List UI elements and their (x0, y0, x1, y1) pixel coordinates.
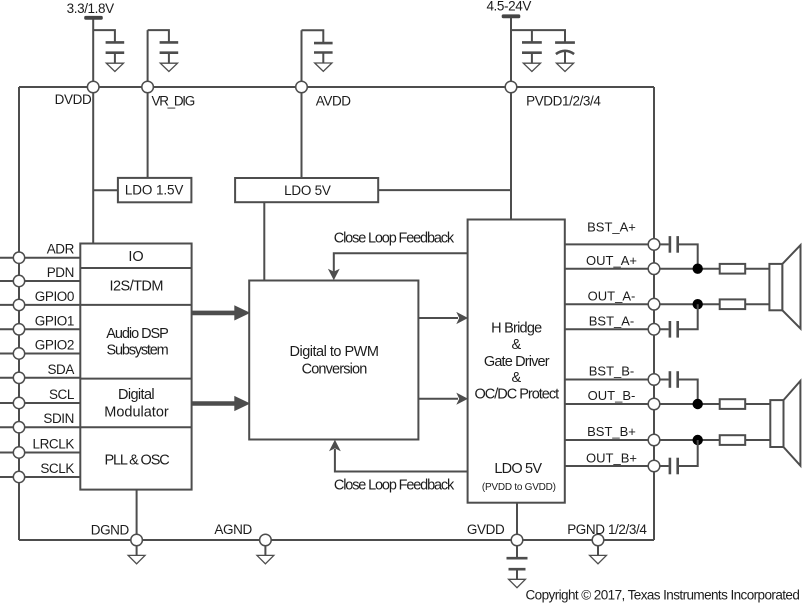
pin wire SDIN (0, 426, 80, 428)
capacitor GVDD decoupling (507, 546, 528, 579)
pin wire PDN (0, 280, 80, 282)
capacitor DVDD decoupling (106, 42, 125, 63)
svg-text:OUT_A-: OUT_A- (588, 289, 636, 304)
svg-text:ADR: ADR (47, 242, 75, 257)
svg-text:Digital: Digital (118, 387, 154, 403)
svg-text:H Bridge: H Bridge (491, 321, 542, 337)
wire OUT_B- output (565, 403, 720, 405)
arrowhead feedback bottom into PWM (329, 440, 341, 451)
ground symbol below AVDD cap (315, 63, 332, 71)
pin wire GPIO2 (0, 353, 80, 355)
capacitor PVDD ceramic (522, 42, 542, 63)
svg-text:OC/DC Protect: OC/DC Protect (474, 386, 559, 402)
svg-text:PVDD1/2/3/4: PVDD1/2/3/4 (526, 94, 601, 109)
svg-text:LDO 5V: LDO 5V (284, 183, 331, 198)
resistor BST_B+ branch (720, 435, 746, 445)
wire BST_B- cap to OUT_B- junction (679, 380, 698, 405)
wire stub DVDD to decoupling cap (93, 30, 115, 42)
wire OUT_A- resistor to speaker (745, 303, 769, 305)
svg-text:PGND 1/2/3/4: PGND 1/2/3/4 (567, 522, 647, 537)
power rail bar 4.5-24V (502, 14, 521, 18)
svg-text:OUT_B+: OUT_B+ (586, 450, 637, 465)
wire close loop feedback top (334, 253, 468, 271)
regulator U-LDO2 LDO 5V (235, 178, 378, 202)
svg-text:Digital to PWM: Digital to PWM (290, 344, 379, 360)
wire BST_B+ output (565, 439, 720, 441)
wire OUT_A+ output (565, 268, 720, 270)
wire LDO 5V output down to PWM block (263, 202, 265, 280)
divider IO / I2S (80, 267, 191, 269)
svg-text:AGND: AGND (214, 522, 252, 537)
capacitor bootstrap BST_A- (670, 321, 678, 338)
ground symbol AGND (257, 546, 274, 564)
node OUT_A+ on rail (648, 263, 660, 275)
node DVDD (87, 81, 99, 93)
wire LDO 5V output to PVDD column (378, 189, 511, 191)
capacitor AVDD decoupling (314, 43, 333, 63)
svg-text:PDN: PDN (47, 265, 74, 280)
node OUT_B+ on rail (648, 460, 660, 472)
wire VR_DIG vertical to LDO 1.5V (147, 30, 149, 178)
wire GVDD from H bridge block (516, 503, 518, 540)
svg-text:Copyright © 2017, Texas Instru: Copyright © 2017, Texas Instruments Inco… (526, 588, 800, 603)
svg-text:SCL: SCL (49, 387, 75, 402)
arrow PWM to H bridge upper (418, 312, 468, 324)
regulator U-LDO1 LDO 1.5V (118, 178, 191, 202)
node BST_A+ on rail (648, 239, 660, 251)
svg-text:SCLK: SCLK (40, 461, 74, 476)
svg-text:OUT_A+: OUT_A+ (586, 253, 637, 268)
wire stub PVDD to decoupling caps (511, 30, 565, 42)
wire outer rail right edge (653, 87, 655, 540)
wire AVDD vertical to LDO 5V (301, 30, 303, 178)
arrowhead feedback top into PWM (328, 269, 340, 281)
node SDA (13, 372, 24, 383)
capacitor PVDD bulk polarized (555, 43, 575, 63)
svg-text:BST_B-: BST_B- (589, 364, 635, 379)
node GPIO0 (13, 299, 24, 310)
wire outer rail left edge (18, 87, 20, 540)
thick bus arrow DSP to PWM upper (192, 305, 250, 320)
ground symbol DGND (128, 546, 145, 564)
node SCLK (13, 471, 24, 482)
pin wire SCL (0, 402, 80, 404)
node GVDD (511, 534, 523, 546)
pin wire SCLK (0, 476, 80, 478)
node LRCLK (13, 447, 24, 458)
wire DGND from DSP block (136, 490, 138, 540)
node AVDD (296, 81, 308, 93)
ground symbol below DVDD cap (106, 63, 123, 71)
svg-text:BST_B+: BST_B+ (587, 424, 636, 439)
svg-text:&: & (511, 370, 521, 386)
svg-text:&: & (511, 337, 521, 353)
svg-text:4.5-24V: 4.5-24V (486, 0, 531, 14)
svg-text:I2S/TDM: I2S/TDM (110, 279, 163, 295)
node ADR (13, 252, 24, 263)
wire BST_B+ resistor to speaker (745, 439, 770, 441)
wire OUT_A+ resistor to speaker (745, 268, 769, 270)
svg-text:LDO 1.5V: LDO 1.5V (125, 183, 184, 198)
block U3 H Bridge Gate Driver OC/DC Protect and LDO 5V (468, 220, 565, 503)
pin wire LRCLK (0, 452, 80, 454)
svg-text:LRCLK: LRCLK (32, 437, 74, 452)
ground symbol below VR_DIG cap (160, 63, 177, 71)
svg-text:SDIN: SDIN (43, 411, 74, 426)
svg-text:AVDD: AVDD (316, 93, 352, 108)
node BST_A- on rail (648, 324, 660, 336)
wire OUT_B+ cap to BST_B+ junction (679, 440, 698, 466)
wire BST_A+ cap to OUT_A+ junction (679, 244, 698, 268)
node PVDD (505, 81, 517, 93)
wire outer rail bottom edge (19, 539, 654, 541)
power rail bar 3.3/1.8V (84, 16, 103, 20)
resistor OUT_A- (720, 299, 746, 309)
thick bus arrow DSP to PWM lower (192, 396, 250, 411)
node PGND (592, 534, 604, 546)
node BST_B- on rail (648, 374, 660, 386)
node OUT_A- on rail (648, 298, 660, 310)
wire BST_A- cap to OUT_A- junction (679, 304, 698, 329)
node BST_B+ on rail (648, 434, 660, 446)
svg-text:BST_A+: BST_A+ (587, 220, 636, 235)
svg-text:SDA: SDA (47, 362, 74, 377)
node SCL (13, 397, 24, 408)
svg-text:LDO 5V: LDO 5V (494, 461, 542, 477)
ground symbol below PVDD bulk cap (556, 63, 573, 71)
svg-text:GPIO1: GPIO1 (35, 313, 74, 328)
wire BST_B- output (565, 379, 669, 381)
speaker B (770, 381, 800, 466)
node GPIO1 (13, 324, 24, 335)
ground symbol GVDD (509, 579, 526, 587)
pin wire GPIO1 (0, 328, 80, 330)
capacitor bootstrap BST_A+ (670, 236, 678, 253)
node SDIN (13, 422, 24, 433)
svg-text:GVDD: GVDD (467, 522, 505, 537)
svg-text:Close Loop Feedback: Close Loop Feedback (334, 478, 455, 494)
pin wire GPIO0 (0, 304, 80, 306)
wire PVDD vertical from 4.5-24V rail to H bridge (510, 18, 512, 220)
svg-text:Modulator: Modulator (104, 404, 169, 420)
svg-text:Audio DSP: Audio DSP (106, 326, 168, 342)
node AGND (260, 534, 272, 546)
svg-text:IO: IO (128, 249, 143, 265)
speaker A (769, 245, 800, 329)
wire branch to first PVDD cap (531, 30, 533, 42)
svg-text:DGND: DGND (91, 523, 130, 538)
junction dot OUT_B- (693, 399, 703, 409)
junction dot BST_B+ (693, 435, 703, 445)
capacitor bootstrap BST_B- (670, 371, 678, 388)
wire OUT_B+ output (565, 465, 669, 467)
block U1 DSP subsystem outline (80, 244, 191, 490)
divider I2S / Audio DSP (80, 304, 191, 306)
wire stub VR_DIG to decoupling cap (148, 30, 169, 42)
divider Digital Modulator / PLL (80, 426, 191, 428)
block U2 Digital to PWM Conversion (249, 281, 418, 440)
svg-text:DVDD: DVDD (55, 92, 92, 107)
node VR_DIG (142, 81, 154, 93)
capacitor VR_DIG decoupling (160, 42, 179, 63)
ground symbol below PVDD ceramic cap (523, 63, 540, 71)
node GPIO2 (13, 348, 24, 359)
ground symbol PGND (590, 546, 607, 564)
svg-text:OUT_B-: OUT_B- (588, 388, 636, 403)
svg-text:GPIO2: GPIO2 (35, 338, 74, 353)
wire OUT_A- output (565, 303, 720, 305)
svg-text:Gate Driver: Gate Driver (484, 354, 550, 370)
svg-text:(PVDD to GVDD): (PVDD to GVDD) (482, 482, 556, 493)
wire OUT_B- resistor to speaker (745, 403, 770, 405)
svg-text:PLL & OSC: PLL & OSC (104, 453, 169, 469)
arrow PWM to H bridge lower (418, 393, 468, 405)
node PDN (13, 275, 24, 286)
wire DVDD vertical from 3.3/1.8V rail to DSP block (92, 20, 94, 244)
divider Audio DSP / Digital Modulator (80, 378, 191, 380)
wire close loop feedback bottom (335, 449, 468, 472)
resistor OUT_B- (720, 399, 746, 409)
svg-text:Subsystem: Subsystem (107, 343, 169, 359)
node OUT_B- on rail (648, 398, 660, 410)
svg-text:3.3/1.8V: 3.3/1.8V (67, 1, 114, 16)
svg-text:Close Loop Feedback: Close Loop Feedback (334, 230, 455, 246)
resistor OUT_A+ (720, 264, 746, 274)
svg-text:GPIO0: GPIO0 (35, 289, 74, 304)
wire stub AVDD to decoupling cap (302, 30, 324, 43)
svg-text:Conversion: Conversion (302, 362, 368, 378)
wire stub DVDD to LDO 1.5V input (93, 189, 118, 191)
pin wire SDA (0, 377, 80, 379)
capacitor bootstrap OUT_B+ (670, 458, 678, 475)
junction dot OUT_A- (693, 299, 703, 309)
svg-text:VR_DIG: VR_DIG (152, 93, 195, 108)
wire BST_A- output (565, 328, 669, 330)
pin wire ADR (0, 257, 80, 259)
node DGND (131, 534, 143, 546)
junction dot OUT_A+ (693, 264, 703, 274)
wire outer rail top edge (19, 86, 654, 88)
wire BST_A+ output (565, 243, 669, 245)
svg-text:BST_A-: BST_A- (589, 313, 635, 328)
